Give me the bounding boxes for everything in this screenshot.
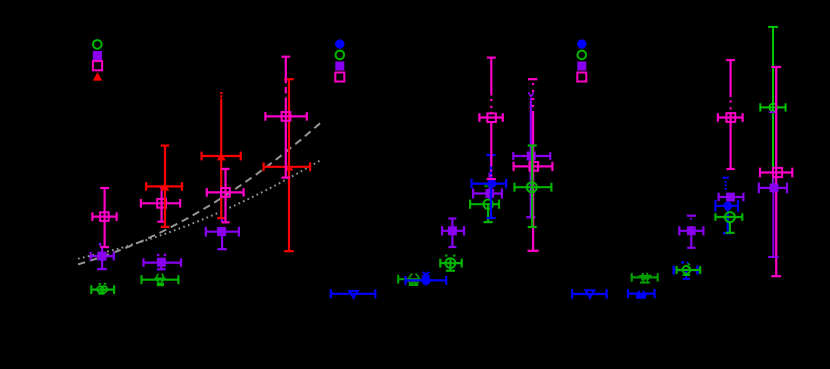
p2 point W magenta open square [530,162,539,171]
legend panel2 magenta open square [335,73,344,82]
p3 point AF purple dash below [769,111,777,113]
legend panel2 purple filled square [335,62,344,71]
p2 point N blue horizontal error bar [330,289,376,298]
p1 point F purple vertical error bar [157,258,166,270]
p3 point AA blue horizontal error bar [673,266,698,275]
p1 point J purple upper dot [221,219,224,222]
p1 point H red upper dots [220,92,222,94]
p1 point A magenta open square [100,212,109,221]
p2 point N blue open down-triangle [349,291,357,298]
legend panel1 green open circle [93,40,102,49]
p1 point B purple upper dash [99,243,102,246]
p2 point Q purple horizontal error bar [442,226,465,235]
p2 point R green open circle [446,258,456,268]
legend panel3 blue filled circle [577,39,586,48]
p3 point AA blue vertical to bottom cap [683,271,690,280]
p2 purple point S2 filled square [485,189,494,198]
legend panel1 magenta open square [93,61,102,70]
legend panel3 green open circle [578,51,587,60]
p3 point AA green squiggle [688,264,691,265]
p1 point C green horizontal error bar [91,285,115,294]
p3 point AH purple filled square [770,184,779,193]
p1 point D magenta horizontal error bar [140,199,181,208]
p1 point A magenta vertical error bar [100,187,109,247]
p3 point AF green vertical error bar [768,26,778,187]
p1 point C green open circle left [97,286,103,292]
p2 purple point S2 vertical error bar [489,173,491,200]
p2 point U magenta vertical error bar lower [490,122,492,167]
p1 point H red filled triangle [217,153,226,160]
p2 green point in V cluster open circle [527,182,537,192]
p1 point H red horizontal error bar [201,152,241,161]
p3 blue point dashed top cap [722,177,729,179]
p1 point L magenta horizontal error bar [265,112,308,121]
p1 point F purple horizontal error bar [143,258,182,267]
p3 point AD purple horizontal error bar [718,193,744,202]
p1 point I magenta horizontal error bar [206,188,244,197]
p3 point AB purple upper dash [687,215,696,217]
p1 point G green open down-triangle [156,278,165,284]
p3 point Y blue pedestal [636,296,646,299]
p3 point AG magenta vertical error bar [771,66,781,276]
p1 point C green upper dashes [98,283,101,285]
p2 point U magenta bottom cap [487,178,496,180]
p3 blue point horizontal error bar [715,200,739,212]
p3 point AC magenta vertical error bar upper [726,60,735,98]
p3 point AF green open circle [769,104,777,112]
p2 point P blue horizontal error bar [405,276,447,285]
p1 point H red vertical error bar [217,99,225,219]
p3 point AC magenta open square [726,113,735,122]
p3 point Z green upper hatches [642,273,644,276]
p3 point AG magenta horizontal error bar [759,168,793,178]
legend panel1 purple filled square [93,51,102,60]
p1 point K red vertical error bar [284,79,294,252]
p3 blue point vertical error bar [723,199,732,234]
p3 point Z green base dash [640,281,650,283]
p2 point W magenta horizontal error bar [513,162,553,171]
p1 point I magenta vertical error bar [221,168,229,223]
p2 point X blue horizontal error bar [572,289,608,299]
p2 point W magenta top cap [528,78,538,80]
p3 point AF green horizontal error bar [760,103,787,111]
p2 green point in V cluster horizontal error bar [514,183,552,192]
p3 point AA green vertical to bottom cap [683,273,691,276]
p1 point E red vertical error bar [161,145,169,228]
p3 point AA green open circle [683,266,691,274]
p3 point AH purple horizontal error bar [758,183,787,194]
p3 point AB purple filled square [687,226,696,235]
p2 point S green vertical error bar [484,204,493,223]
p3 point AE green vertical error bar [725,221,734,233]
p3 point AC magenta vertical error bar lower [726,113,734,170]
p1 point D magenta open square [157,199,166,208]
p2 dark-green dash point [484,185,495,187]
p3 point AB purple upper tick [690,218,692,220]
p3 point Z green horizontal error bar [631,273,658,281]
p2 point S green horizontal error bar [470,200,500,209]
p3 point AB purple horizontal error bar [679,226,704,235]
p1 point J purple filled square [217,227,226,236]
p1 point G green upper hatches [156,274,158,278]
p1 point I magenta open square [221,188,230,197]
p1 point L magenta open square [282,112,291,121]
p2 point V purple filled square [527,152,536,161]
p1 point K red filled triangle [284,164,293,171]
p1 point E red horizontal error bar [146,182,183,191]
p1 point K red horizontal error bar [263,162,311,171]
legend panel1 red filled triangle [93,72,102,80]
p2 point U magenta open square [487,113,496,122]
p2 purple point S2 horizontal error bar [473,189,503,199]
p3 point AG magenta open square [773,168,782,177]
gray dashed model curve [78,121,323,264]
legend panel2 green open circle [336,51,345,60]
p2 point U magenta vertical dashes [490,99,492,101]
p3 blue point dotted vertical [725,181,727,183]
p1 point C green open circle right [101,286,107,292]
p2 point U magenta lower dashes [490,169,492,171]
p1 point G green base [157,283,164,286]
gray dotted model curve [78,159,323,259]
p3 point AA blue upper dot [681,261,684,264]
p2 point V purple arrowhead [529,93,532,98]
p2 point R green horizontal error bar [440,259,463,268]
p2 point U magenta horizontal error bar [479,113,504,122]
p2 point P blue upper cross [422,272,430,277]
p2 point P blue vertical bar [425,275,427,286]
p3 blue point filled circle [723,201,732,210]
p1 point C green base bar [98,293,104,295]
p2 point Q purple filled square [448,226,457,235]
p2 point T blue filled circle [487,179,496,188]
p2 point O green open down-triangles [408,280,415,284]
p2 point T blue vertical error bar [486,155,495,219]
p1 point F purple upper dots [157,254,159,256]
p2 point S green open circle [484,200,493,209]
p1 point L magenta vertical error bar [281,56,290,178]
p1 point J purple horizontal error bar [205,227,239,237]
legend panel2 blue filled circle [335,39,344,48]
p2 point T blue horizontal error bar [471,179,507,189]
p3 point AC magenta horizontal error bar [717,113,743,122]
p3 point AE green open circle [725,212,735,222]
p2 point W magenta vertical dashes [532,83,534,85]
p3 point AB purple vertical error bar [687,226,695,248]
p3 point Y blue horizontal error bar [627,289,655,298]
p1 point G green horizontal error bar [141,275,179,284]
p1 point D magenta vertical error bar [157,186,165,222]
p2 point X blue open down-triangle [586,290,595,298]
p2 point P blue filled circle [421,276,430,285]
p1 point B purple vertical error bar [97,248,107,270]
p1 point A magenta horizontal error bar [92,212,117,221]
p2 point O green horizontal error bar [398,275,420,284]
p3 point AA blue diagonal dash [687,262,689,265]
p2 point V purple horizontal error bar [513,152,551,160]
p3 point AC magenta vertical dashes [730,100,732,102]
p3 point Z green open down-triangles [640,276,646,281]
p2 point V purple vertical error bar [526,98,535,218]
p3 point AE green horizontal error bar [715,213,743,221]
p3 point AA green horizontal error bar [676,266,701,274]
p1 point L magenta vertical dash gaps [284,83,287,87]
p1 point B purple horizontal error bar [90,252,114,261]
p2 green point in V cluster vertical error bar [528,145,537,228]
p1 point J purple vertical error bar [217,227,227,250]
p2 point R green vertical error bar [446,259,455,272]
legend panel3 magenta open square [577,73,586,82]
p2 point W magenta vertical error bar [528,111,539,251]
p2 point U magenta vertical error bar upper [487,57,496,96]
p2 point O green upper hatches [409,274,412,279]
p2 point Q purple vertical error bar [448,218,456,248]
p2 point R green upper dots [445,255,447,257]
p1 point B purple filled square [98,252,107,261]
p1 point F purple filled square [157,258,166,267]
p3 point AH purple vertical error bar [768,178,778,258]
p3 point Y blue filled triangles [636,290,642,296]
p2 point O green base [409,283,418,286]
legend panel3 purple filled square [577,62,586,71]
p3 point AD purple filled square [726,193,735,202]
p1 point E red filled triangle [160,183,169,191]
